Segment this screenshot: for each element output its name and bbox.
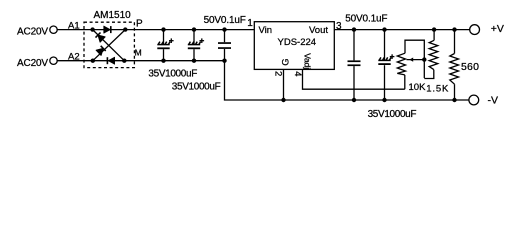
- node C4 top junction: [352, 27, 356, 31]
- svg-text:A2: A2: [68, 52, 80, 63]
- capacitor C1 35V1000uF plates: [157, 38, 173, 49]
- node C3 top junction: [222, 27, 226, 31]
- potentiometer VR1 bottom lead to Vadj line: [404, 75, 406, 89]
- node C5 top junction: [382, 27, 386, 31]
- wire R1 bottom lead to wiper node: [424, 70, 434, 79]
- node R2 bottom junction: [452, 98, 456, 102]
- node bridge BR junction: [122, 59, 126, 63]
- svg-text:Vin: Vin: [259, 25, 273, 36]
- svg-text:50V0.1uF: 50V0.1uF: [345, 13, 387, 24]
- regulator U1 YDS-224 box: [254, 22, 334, 70]
- svg-text:AC20V: AC20V: [17, 27, 48, 38]
- wire U1 pin2 G to bottom rail: [283, 69, 285, 100]
- wire bridge bottom rail: [93, 60, 125, 62]
- resistor R1 1.5K zigzag body: [429, 40, 438, 69]
- terminal -V circle: [469, 95, 479, 105]
- svg-text:560: 560: [461, 61, 479, 73]
- svg-text:AC20V: AC20V: [17, 58, 48, 69]
- node G pin junction on bottom rail: [281, 98, 285, 102]
- potentiometer VR1 10K top lead and loop to wiper node: [405, 40, 424, 78]
- svg-text:YDS-224: YDS-224: [278, 37, 317, 48]
- node bridge BL junction: [91, 59, 95, 63]
- svg-text:Vadj: Vadj: [302, 53, 312, 69]
- resistor R2 560 zigzag body: [450, 54, 459, 85]
- diode D2 bottom rail pointing left: [107, 57, 115, 64]
- resistor R2 560 top lead: [454, 30, 456, 54]
- svg-text:-V: -V: [488, 95, 499, 107]
- svg-text:35V1000uF: 35V1000uF: [368, 109, 417, 120]
- resistor R2 560 bottom lead: [454, 84, 456, 100]
- wire bridge diagonal TL-BR: [93, 30, 125, 61]
- wire M rail from bridge to corner: [124, 60, 224, 62]
- node C2 top junction: [192, 27, 196, 31]
- node bridge TR junction: [123, 27, 127, 31]
- capacitor C5 35V1000uF plates: [378, 54, 394, 65]
- node C4 bottom junction: [352, 98, 356, 102]
- capacitor C2 35V1000uF wires: [193, 30, 195, 45]
- node C1 top junction: [161, 27, 165, 31]
- node C3 bottom junction: [222, 59, 226, 63]
- wire A2 from J2 to bridge: [57, 60, 93, 62]
- terminal J1 AC20V circle: [50, 26, 57, 33]
- potentiometer VR1 wiper arrow: [407, 59, 425, 61]
- terminal +V circle: [470, 25, 480, 35]
- resistor R1 1.5K top lead: [433, 30, 435, 41]
- terminal J2 AC20V circle: [50, 57, 57, 64]
- diode D3 on diagonal TL-BR pointing up-left: [96, 33, 106, 43]
- wire Vout rail from U1 to +V terminal: [334, 29, 469, 31]
- svg-text:35V1000uF: 35V1000uF: [172, 82, 221, 93]
- node bridge TL junction: [90, 27, 94, 31]
- potentiometer VR1 10K zigzag body: [397, 53, 405, 75]
- svg-text:2: 2: [273, 71, 284, 76]
- bridge rectifier AM1510 dashed box: [84, 22, 134, 67]
- svg-text:A1: A1: [68, 20, 80, 31]
- diode D4 on diagonal BL-TR pointing up-right: [96, 46, 106, 56]
- capacitor C3 50V0.1uF plates: [218, 42, 231, 49]
- svg-text:1.5K: 1.5K: [426, 84, 449, 95]
- wire U1 pin4 Vadj down and right to pot bottom: [303, 69, 405, 89]
- capacitor C5 35V1000uF wires: [384, 30, 386, 61]
- svg-text:M: M: [135, 48, 142, 58]
- diode D1 top rail pointing right: [104, 26, 112, 33]
- svg-text:+V: +V: [491, 23, 504, 35]
- svg-text:AM1510: AM1510: [94, 10, 132, 21]
- capacitor C3 50V0.1uF wires: [224, 30, 226, 43]
- svg-text:G: G: [281, 58, 292, 65]
- svg-text:35V1000uF: 35V1000uF: [148, 69, 197, 80]
- capacitor C4 50V0.1uF wire: [353, 30, 355, 61]
- node R1 top junction: [432, 27, 436, 31]
- wire M rail corner down to bottom rail: [225, 61, 470, 100]
- capacitor C2 35V1000uF plates: [188, 38, 204, 49]
- svg-text:P: P: [136, 18, 143, 29]
- node wiper junction: [422, 57, 426, 61]
- wire bridge diagonal BL-TR: [93, 30, 126, 61]
- capacitor C4 50V0.1uF plates: [348, 60, 361, 66]
- svg-text:4: 4: [292, 71, 303, 76]
- wire A1 from J1 to bridge: [57, 29, 92, 31]
- capacitor C1 35V1000uF wires: [163, 30, 165, 45]
- svg-text:3: 3: [336, 21, 342, 32]
- node C2 bottom junction: [192, 59, 196, 63]
- wire bridge top rail: [93, 29, 126, 31]
- svg-text:Vout: Vout: [309, 25, 328, 36]
- svg-text:10K: 10K: [409, 82, 427, 93]
- node R2 top junction: [452, 27, 456, 31]
- svg-text:1: 1: [247, 18, 253, 29]
- svg-text:50V0.1uF: 50V0.1uF: [204, 15, 246, 26]
- node C5 bottom junction: [382, 98, 386, 102]
- node C1 bottom junction: [161, 59, 165, 63]
- wire P rail from bridge to regulator Vin: [125, 29, 254, 31]
